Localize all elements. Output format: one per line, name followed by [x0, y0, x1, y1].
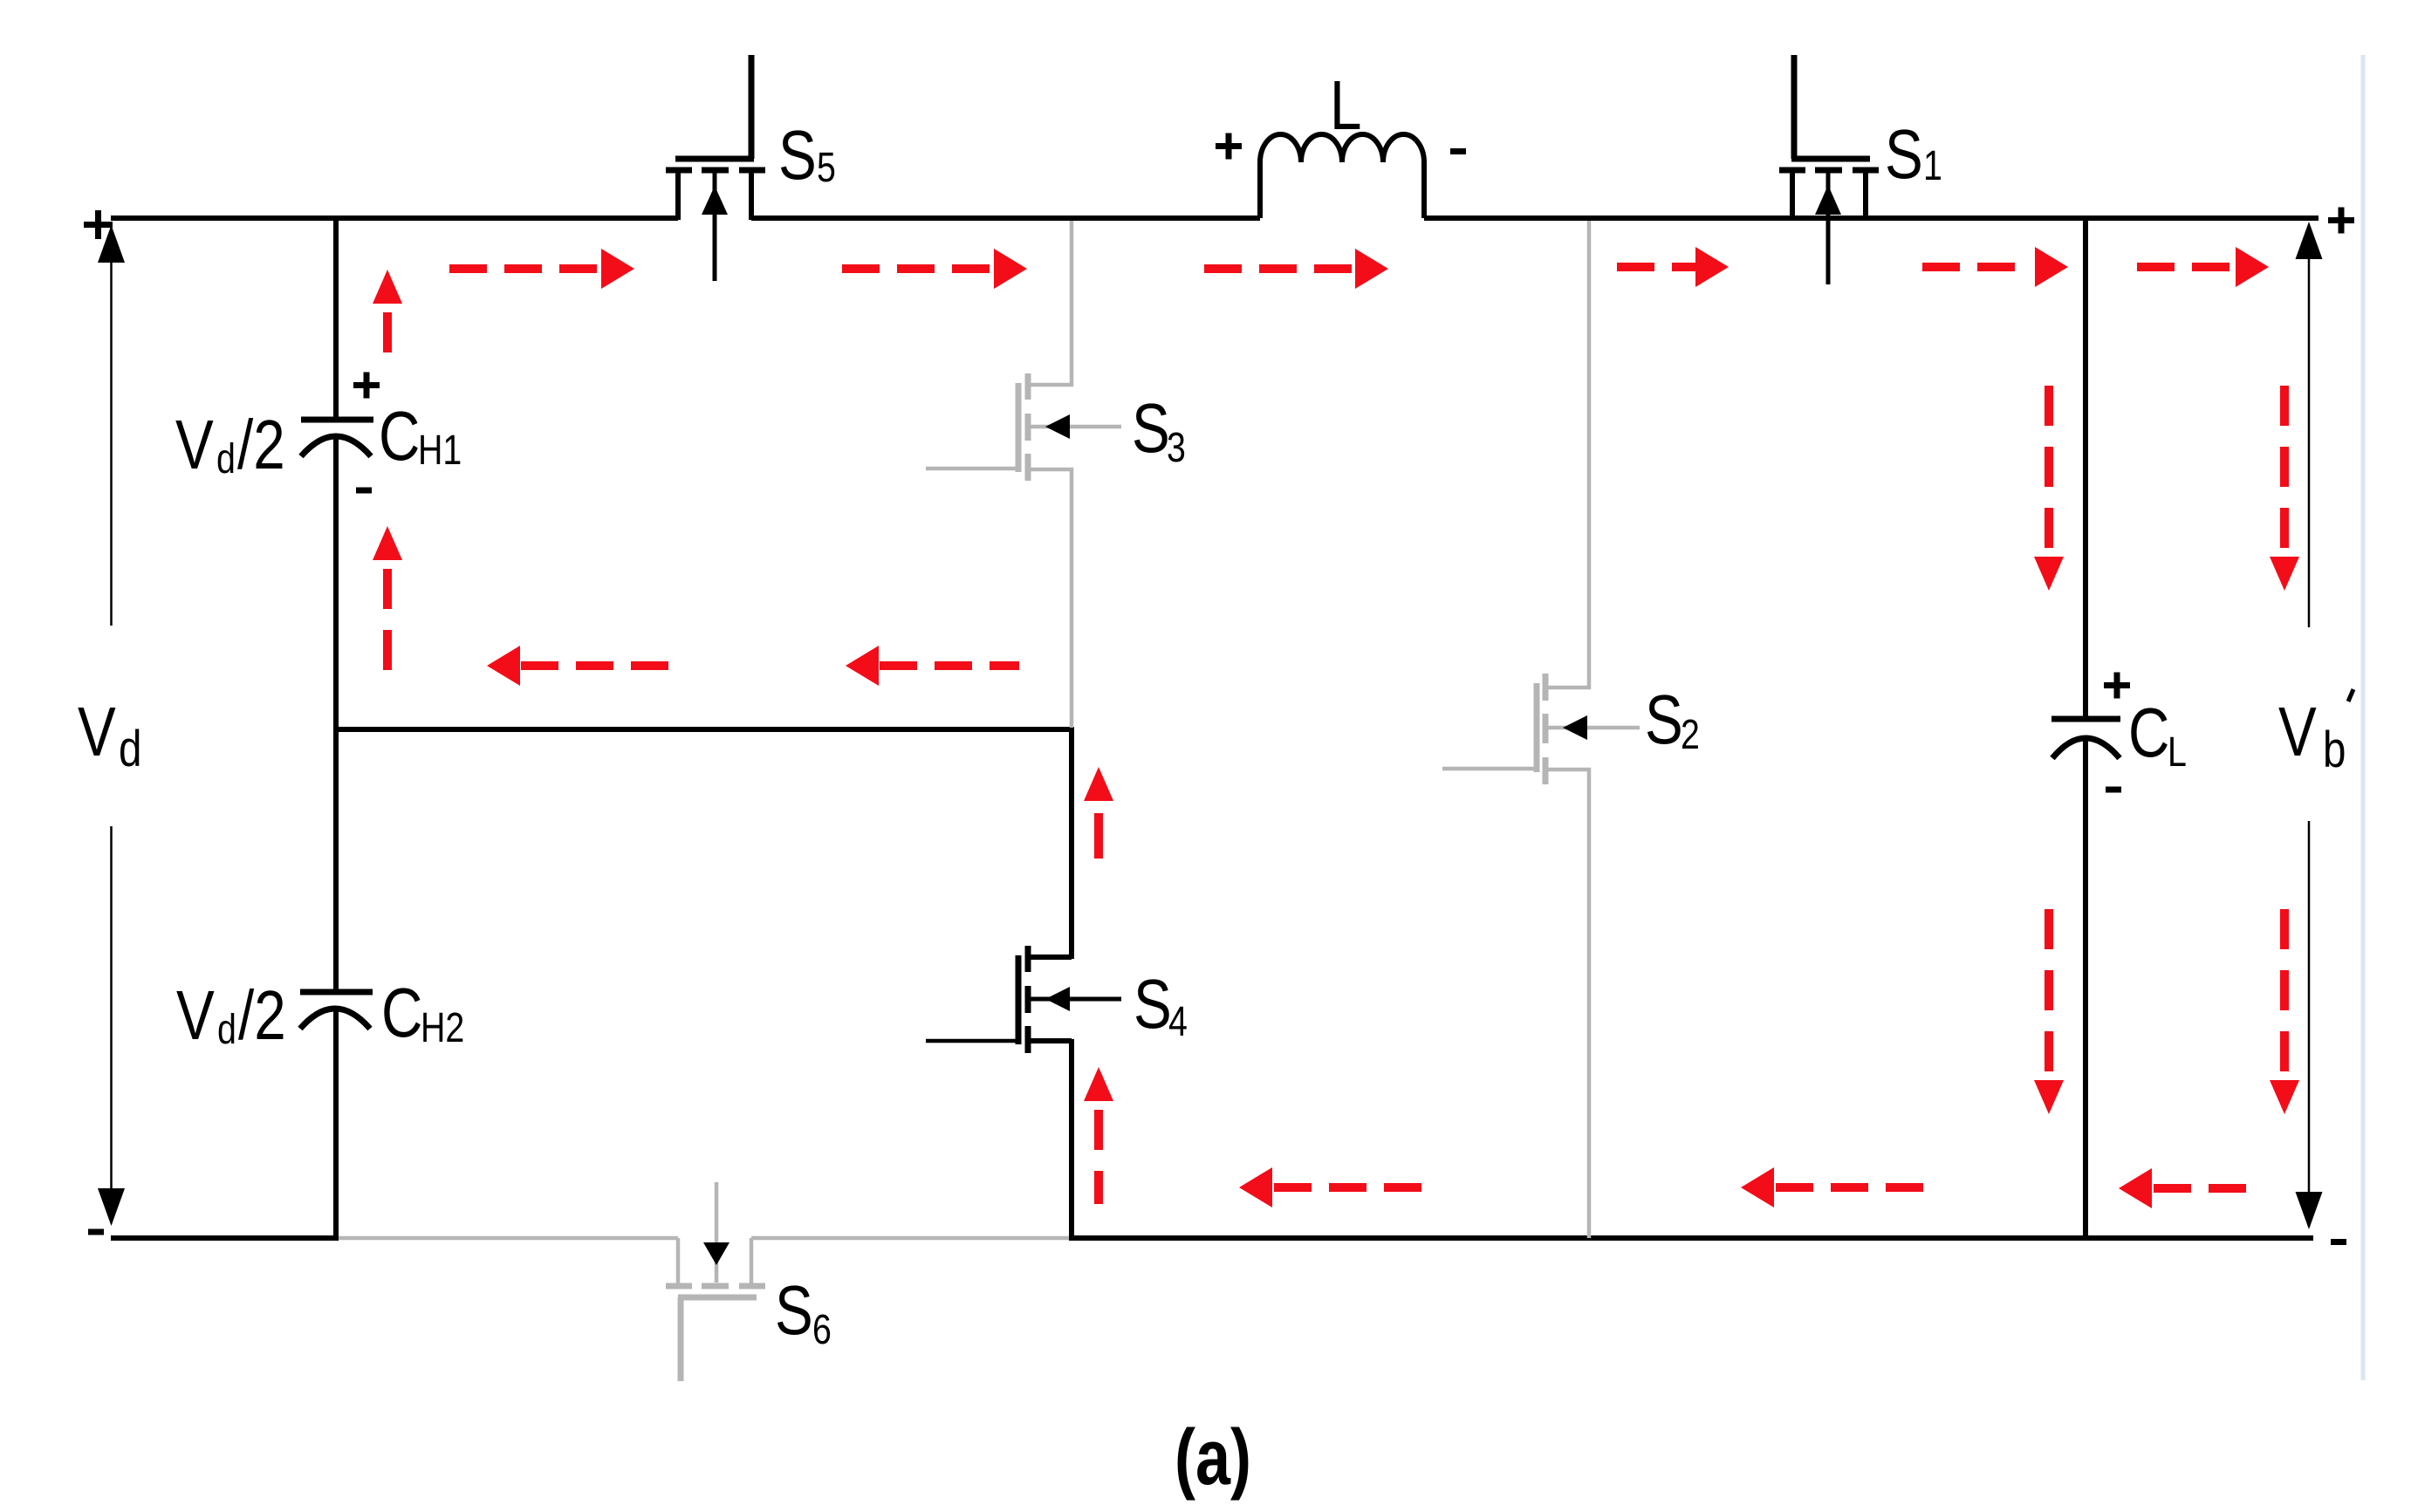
plus sign of Vd (top left): [84, 210, 113, 239]
wire midpoint horizontal (node M to S3/S4 junction): [336, 727, 1074, 732]
label CL: [2128, 694, 2187, 776]
transistor S4: [926, 946, 1121, 1053]
wire CL to bottom rail: [2083, 735, 2088, 1241]
label S2: [1645, 681, 1700, 759]
svg-text:C: C: [2128, 694, 2169, 772]
current arrow bottom 1 (leftward toward S4): [1239, 1167, 1423, 1208]
svg-text:S: S: [1134, 965, 1172, 1043]
wire output capacitor branch upper (top rail to CL): [2083, 216, 2088, 719]
current arrow top 6 (after CL junction, rightward): [2137, 247, 2269, 287]
label Vb': [2278, 689, 2353, 778]
wire S4 source to bottom rail: [1069, 1039, 1074, 1241]
svg-text:1: 1: [1923, 142, 1942, 189]
svg-text:V: V: [176, 976, 215, 1055]
svg-text:/2: /2: [237, 406, 285, 484]
label Vd/2 of CH2: [176, 976, 286, 1055]
plus sign of Vb' (top right): [2328, 208, 2354, 234]
svg-text:L: L: [2168, 729, 2187, 776]
current arrow top 4 (after S2 junction, rightward): [1617, 247, 1729, 287]
svg-text:V: V: [2278, 693, 2317, 771]
transistor S1: [1779, 55, 1879, 284]
svg-text:6: 6: [812, 1306, 832, 1353]
transistor S3 (inactive gray): [926, 373, 1121, 481]
wire bottom rail left black segment: [111, 1235, 338, 1241]
inductor L: [1260, 134, 1424, 218]
minus sign of CL: [2106, 787, 2121, 793]
minus sign of Vd (bottom left): [88, 1229, 104, 1235]
label Vd/2 of CH1: [175, 406, 285, 484]
current arrow top 5 (after S1, rightward): [1922, 247, 2068, 287]
current arrow up beside CH1 (top): [373, 270, 402, 352]
wire S4 drain to midpoint junction: [1069, 729, 1074, 959]
current arrow mid return 2 (leftward): [846, 646, 1019, 686]
svg-text:V: V: [78, 693, 116, 771]
svg-text:S: S: [778, 116, 817, 195]
label S1: [1885, 115, 1942, 194]
svg-text:d: d: [217, 1006, 236, 1053]
svg-text:H1: H1: [418, 427, 462, 474]
current arrow up above S4: [1084, 767, 1113, 859]
svg-text:b: b: [2323, 722, 2346, 779]
wire S2 branch top (gray, top rail junction down to S2): [1547, 221, 1589, 688]
wire S3 bottom jog to midpoint junction (gray): [1030, 469, 1072, 728]
label Vd: [78, 693, 141, 777]
Vd measurement arrow: [98, 225, 125, 1226]
current arrow up beside CH1 (bottom): [373, 526, 402, 670]
svg-text:4: 4: [1168, 998, 1188, 1045]
label S4: [1134, 965, 1188, 1045]
wire bottom rail right black segment: [1069, 1235, 2313, 1241]
minus sign of CH1: [356, 488, 372, 494]
minus sign of Vb' (bottom right): [2331, 1239, 2346, 1245]
transistor S2 (inactive gray): [1442, 674, 1640, 784]
wire top rail left segment: [111, 216, 678, 221]
plus sign of CL: [2104, 673, 2130, 699]
capacitor CH1: [301, 420, 373, 456]
svg-text:C: C: [381, 974, 422, 1052]
current arrow mid return 1 (leftward toward node M): [487, 646, 671, 686]
current arrow top 3 (after S3 junction, rightward): [1204, 249, 1388, 289]
wire bottom rail gray segment 1 (S6 left): [336, 1236, 678, 1241]
capacitor CH2: [300, 992, 373, 1029]
svg-text:3: 3: [1167, 424, 1186, 471]
current arrow down right of CL (lower): [2270, 909, 2299, 1114]
svg-text:V: V: [175, 406, 214, 484]
svg-text:S: S: [775, 1271, 813, 1350]
current arrow bottom 2 (leftward): [1741, 1167, 1923, 1208]
plus sign of inductor L: [1216, 133, 1242, 160]
capacitor CL: [2051, 719, 2120, 758]
svg-text:S: S: [1645, 681, 1683, 759]
current arrow top 1 (after CH1 branch, rightward): [449, 249, 634, 289]
transistor S6 (inactive gray): [666, 1182, 765, 1381]
current arrow bottom 3 (leftward toward CL): [2119, 1168, 2262, 1208]
svg-text:H2: H2: [421, 1004, 464, 1051]
current arrow up below S4: [1084, 1067, 1113, 1204]
wire input capacitor branch upper (top rail to CH1): [333, 216, 339, 420]
wire top rail right segment: [1424, 216, 2319, 221]
label S3: [1132, 389, 1186, 471]
Vb' measurement arrow: [2296, 222, 2323, 1229]
wire bottom rail gray segment 2 (S6 right): [751, 1236, 1072, 1241]
svg-text:C: C: [379, 397, 420, 475]
label S6: [775, 1271, 832, 1353]
label CH1: [379, 397, 462, 475]
svg-text:/2: /2: [238, 976, 286, 1055]
current arrow down left of CL (upper): [2034, 386, 2064, 591]
svg-text:S: S: [1885, 115, 1923, 194]
label S5: [778, 116, 836, 195]
page edge artifact line: [2361, 55, 2366, 1380]
current arrow top 2 (after S5, rightward): [842, 249, 1027, 289]
label (a) caption: [1175, 1413, 1251, 1501]
current arrow down right of CL (upper): [2270, 386, 2299, 591]
wire CH2 to bottom rail: [333, 1006, 339, 1241]
plus sign of CH1: [353, 373, 380, 399]
label L: [1330, 66, 1361, 145]
wire top rail middle segment: [751, 216, 1260, 221]
svg-text:S: S: [1132, 389, 1170, 468]
transistor S5: [666, 55, 765, 281]
svg-text:d: d: [119, 722, 141, 778]
svg-text:2: 2: [1681, 711, 1700, 758]
svg-text:(a): (a): [1175, 1413, 1251, 1501]
svg-text:5: 5: [817, 144, 836, 191]
wire S2 source to bottom rail (gray): [1547, 770, 1589, 1238]
wire CH1 to CH2 through midpoint node: [333, 434, 339, 992]
minus sign of inductor L: [1450, 148, 1466, 154]
label CH2: [381, 974, 464, 1052]
svg-text:d: d: [216, 435, 236, 482]
svg-text:L: L: [1330, 66, 1361, 145]
wire S3 branch top (gray, top rail junction down to S3): [1030, 221, 1072, 385]
current arrow down left of CL (lower): [2034, 909, 2064, 1114]
